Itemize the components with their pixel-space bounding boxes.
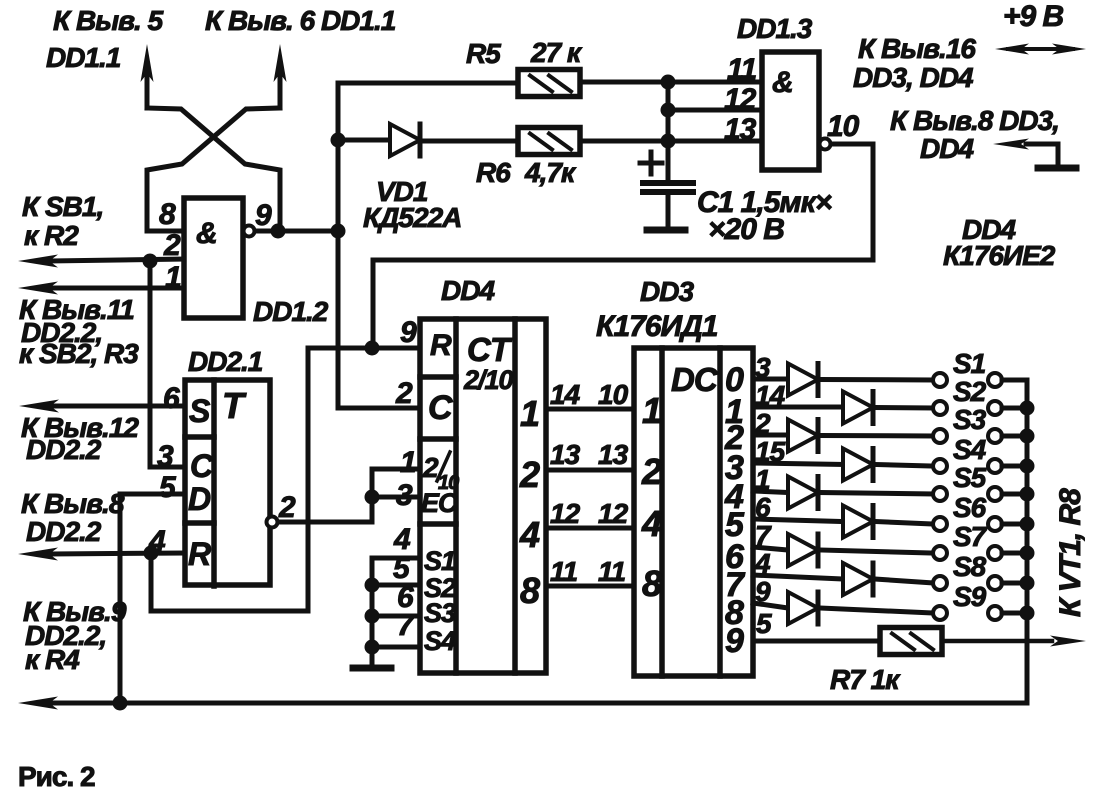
svg-text:9: 9 [725,622,744,660]
DD4 cell divider C/EC [420,436,456,442]
svg-text:к R4: к R4 [25,644,80,675]
DD4 left column divider [453,319,459,673]
svg-text:3: 3 [396,479,413,512]
ground DD3 DD4 pin8 [1038,165,1076,172]
wire DD3 out0 to diode VD2 [753,377,788,382]
resistor R5 [518,70,580,97]
wire switch common bus [1025,380,1030,703]
wire DD4 out4 to DD3 in4 [546,526,634,531]
DD1.3 output inversion bubble pin10 [820,139,831,150]
switch S3 contacts [933,429,1027,443]
wire R6 to DD1.3 pin13 [580,139,762,144]
wire C1 to ground [666,192,671,228]
svg-text:К176ИД1: К176ИД1 [596,310,718,343]
svg-text:1: 1 [520,393,539,434]
svg-text:4: 4 [641,503,662,544]
svg-text:4,7к: 4,7к [524,157,577,188]
junction dot VD1 branch [331,133,346,148]
svg-text:к R2: к R2 [24,220,79,251]
svg-text:4: 4 [519,514,540,555]
wire DD4 S inputs common [372,558,420,665]
DD4 2/10 EC label [421,452,459,518]
wire R7 to K VT1 R8 arrow [942,636,1086,647]
wire DD3 out9 to R7 [753,639,880,644]
svg-text:11: 11 [550,556,577,587]
junction dot pin12 net [661,103,676,118]
junction dot R6 net [661,134,676,149]
svg-text:Рис. 2: Рис. 2 [18,761,95,792]
wire arrow K Vyv.8 (R pin4) [18,548,185,561]
wire DD3 out6 to diode VD8 [753,547,788,550]
svg-text:11: 11 [727,53,756,86]
wire diode VD9 to switch S8 [875,579,933,583]
junction dot bus S8 [1020,576,1035,591]
DD2.1 cell divider D/R [185,520,214,526]
wire arrow K Vyv.11 (pin1) [18,282,184,295]
svg-text:К SB1,: К SB1, [22,191,103,222]
wire diode VD7 to switch S6 [875,522,933,525]
wire cross diagonal from pin6-arrow to gate pin8 [147,108,280,231]
DD2.1 pin column divider [211,380,217,586]
junction dot bus S4 [1020,459,1035,474]
svg-text:К Выв. 6 DD1.1: К Выв. 6 DD1.1 [205,5,396,36]
diode VD10 [788,592,818,624]
svg-text:5: 5 [159,471,177,504]
svg-text:К Выв.8: К Выв.8 [21,488,125,519]
wire DD3 out8 to diode VD10 [753,603,788,608]
svg-text:R: R [188,536,211,572]
svg-text:T: T [222,385,247,426]
wire DD1.2 output to node [255,229,338,234]
wire DD3 out3 to diode VD5 [753,463,843,465]
svg-text:13: 13 [550,439,581,470]
DD2.1 output inversion bubble pin2 [267,517,278,528]
wire loop R pin4 to reset net [151,348,308,611]
svg-text:EC: EC [421,488,458,518]
svg-text:2/10: 2/10 [463,365,514,395]
svg-text:S4: S4 [953,434,987,465]
svg-text:S5: S5 [953,462,987,493]
wire pin12 stub [668,108,762,113]
capacitor C1 plates [643,183,693,192]
flip-flop DD2.1 box [185,380,270,585]
svg-text:D: D [188,481,211,517]
wire DD4 out8 to DD3 in8 [546,584,634,589]
wire diode VD5 to switch S4 [875,465,933,467]
switch S2 contacts [933,401,1027,415]
wire arrow up to DD1.1 pin6 [274,44,287,108]
diode VD2 [788,364,818,396]
wire DD3 out5 to diode VD7 [753,519,843,522]
svg-text:S3: S3 [424,598,456,628]
svg-text:DD4: DD4 [920,133,974,164]
wire D input pin5 to bottom rail [120,494,185,703]
diode VD6 [788,477,818,509]
svg-text:R7 1к: R7 1к [830,664,901,695]
decoder DD3 box [634,348,753,676]
svg-text:8: 8 [159,198,176,231]
wire diode VD8 to switch S7 [820,550,933,553]
junction dot bus S5 [1020,487,1035,502]
svg-text:S1: S1 [424,546,455,576]
diode VD7 [843,506,873,538]
svg-text:C: C [190,448,214,484]
wire DD3 out7 to diode VD9 [753,575,843,579]
svg-text:DD2.1: DD2.1 [188,346,263,377]
svg-text:S: S [189,393,211,429]
wire main node vertical to DD4 C input [338,83,419,408]
svg-text:×20 В: ×20 В [708,213,784,246]
junction dot R5 net [661,75,676,90]
svg-text:R5: R5 [466,38,501,69]
junction dot pin2 branch [143,254,158,269]
DD2.1 cell divider S/C [185,434,214,440]
diode VD9 [843,563,873,595]
svg-text:10: 10 [827,110,860,143]
svg-text:DD3: DD3 [640,276,694,307]
DD4 cell divider EC/S [420,521,456,527]
svg-text:13: 13 [724,113,757,146]
junction dot bus S2 [1020,401,1035,416]
svg-text:К Выв.8 DD3,: К Выв.8 DD3, [890,105,1059,136]
wire DD1.3 pin10 feedback to reset net [373,144,873,348]
svg-text:13: 13 [598,439,629,470]
diode VD1 [390,124,420,156]
svg-text:2: 2 [278,491,296,524]
svg-text:DC: DC [671,361,719,398]
svg-text:К Выв.16: К Выв.16 [858,33,976,64]
svg-text:3: 3 [157,440,174,473]
wire vertical from pin2 node down to DD2.1 C input [150,261,185,467]
wire DD4 out2 to DD3 in2 [546,468,634,473]
svg-text:S9: S9 [953,581,987,612]
svg-text:1: 1 [642,390,661,431]
wire arrow K SB1 (pin2) [18,255,184,268]
svg-text:DD2.2: DD2.2 [26,516,102,547]
ground C1 [647,227,685,234]
wire VD1 to R6 [422,139,518,144]
svg-text:8: 8 [642,563,662,604]
junction dot bus S6 [1020,517,1035,532]
resistor R7 [880,628,942,655]
svg-text:DD1.2: DD1.2 [253,296,329,327]
svg-text:12: 12 [550,498,581,529]
junction dot R pin4 [144,546,159,561]
wire +9V double arrow [995,44,1086,55]
DD4 cell divider R/C [420,374,456,380]
capacitor C1 plus sign [640,152,662,174]
svg-text:2: 2 [519,454,540,495]
svg-text:5: 5 [756,608,772,639]
DD1.2 output inversion bubble pin9 [244,226,255,237]
diode VD5 [843,449,873,481]
diode VD4 [788,420,818,452]
junction dot bus S9 [1020,606,1035,621]
svg-text:к SB2, R3: к SB2, R3 [19,338,139,369]
svg-text:+9 В: +9 В [1003,0,1064,33]
wire diode VD3 to switch S2 [875,405,933,411]
switch S5 contacts [933,487,1027,501]
wire DD2.1 pin2 to DD4 EC inputs [278,469,419,522]
svg-text:10: 10 [598,379,629,410]
svg-text:DD3, DD4: DD3, DD4 [853,62,974,93]
switch S9 contacts [933,606,1027,620]
junction dot reset net [365,341,380,356]
wire DD3 out4 to diode VD6 [753,491,788,493]
svg-text:27 к: 27 к [530,37,583,68]
wire arrow up to DD1.1 pin5 [141,44,154,108]
diode VD3 [843,392,873,424]
wire diode VD2 to switch S1 [820,377,933,383]
svg-text:CT: CT [467,331,513,368]
wire arrow K Vyv.12 (S pin6) [19,400,185,413]
svg-text:S2: S2 [953,376,987,407]
op-amp gate DD1.3 box [762,52,819,170]
svg-text:C: C [428,389,453,427]
DD4 right column divider [512,319,518,673]
junction dot EC branch [365,490,380,505]
switch S4 contacts [933,459,1027,473]
svg-text:DD2.2: DD2.2 [26,434,102,465]
svg-text:9: 9 [400,316,417,349]
svg-text:&: & [772,66,793,99]
op-amp gate DD1.2 box [184,198,243,318]
wire arrow K Vyv.9 (rail) [18,697,58,710]
wire DD3 out1 to diode VD3 [753,405,843,410]
wire R5 net vertical to C1 [666,82,671,182]
svg-text:8: 8 [520,570,540,611]
junction dot bus S7 [1020,546,1035,561]
resistor R6 [518,128,580,155]
diode VD8 [788,534,818,566]
svg-text:S6: S6 [953,492,987,523]
junction dot output-cross [271,224,286,239]
wire branch to DD4 pin3 [372,495,419,500]
svg-text:К VT1, R8: К VT1, R8 [1054,488,1087,617]
svg-text:14: 14 [550,379,581,410]
svg-text:2: 2 [641,451,662,492]
svg-text:1: 1 [400,446,416,479]
svg-text:12: 12 [598,498,629,529]
switch S6 contacts [933,517,1027,531]
svg-text:R: R [430,329,452,362]
svg-text:DD1.3: DD1.3 [737,13,813,44]
DD3 right column divider [717,348,723,676]
wire K Vyv.8 arrow to ground [993,139,1058,167]
wire diode VD10 to switch S9 [820,608,933,613]
junction dot bus S3 [1020,429,1035,444]
svg-text:6: 6 [163,382,180,415]
junction dot S4 [365,640,380,655]
svg-text:S8: S8 [953,551,987,582]
junction dot S3 [365,609,380,624]
wire node to R5 [338,81,518,86]
junction dot rail D-input [113,696,128,711]
wire node to VD1 [338,138,390,143]
svg-text:К176ИЕ2: К176ИЕ2 [943,240,1056,271]
svg-text:2: 2 [395,377,413,410]
counter DD4 box [420,319,546,673]
wire diode VD6 to switch S5 [820,493,933,495]
wire bottom rail [50,701,1027,706]
switch S7 contacts [933,546,1027,560]
switch S8 contacts [933,576,1027,590]
svg-text:&: & [196,217,217,250]
svg-text:DD1.1: DD1.1 [46,42,121,73]
svg-text:КД522А: КД522А [363,202,461,233]
svg-text:S3: S3 [953,404,987,435]
svg-text:9: 9 [255,199,272,232]
svg-text:R6: R6 [476,157,511,188]
svg-text:S7: S7 [953,521,988,552]
wire DD3 out2 to diode VD4 [753,433,788,438]
junction dot S2 [365,578,380,593]
DD3 left column divider [659,348,665,676]
svg-text:S4: S4 [424,626,456,656]
wire cross diagonal from pin5-arrow to gate output [147,108,280,231]
wire R5 to DD1.3 pin11 [580,80,762,85]
wire pin8 stub [147,229,184,234]
junction dot output-main vertical [331,224,346,239]
svg-text:S1: S1 [953,348,986,379]
switch S1 contacts [933,373,1027,387]
wire diode VD4 to switch S3 [820,433,933,439]
svg-text:DD4: DD4 [441,275,495,306]
svg-text:К Выв. 5: К Выв. 5 [53,5,164,36]
wire DD4 out1 to DD3 in1 [546,407,634,412]
svg-text:11: 11 [598,556,625,587]
ground DD4 S inputs [353,665,391,672]
wire reset net to DD4 R pin9 [308,346,419,351]
